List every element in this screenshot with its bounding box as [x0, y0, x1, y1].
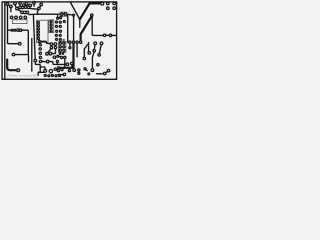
svg-text:J.P.Bour at epoust-005: J.P.Bour at epoust-005	[7, 73, 38, 77]
